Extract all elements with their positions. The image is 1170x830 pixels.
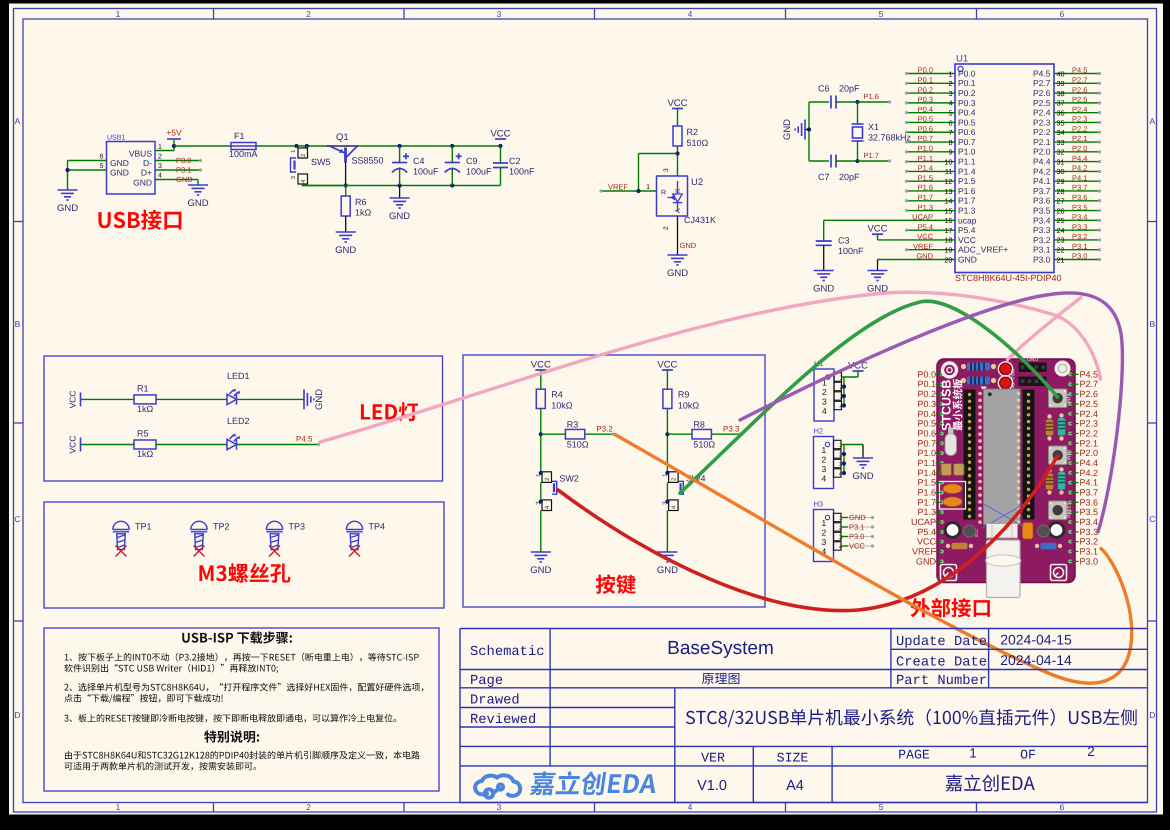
wire <box>908 249 955 251</box>
svg-text:P0.6: P0.6 <box>918 124 933 133</box>
svg-text:TP2: TP2 <box>213 522 230 532</box>
svg-text:P4.4: P4.4 <box>1033 157 1051 167</box>
svg-text:BaseSystem: BaseSystem <box>667 638 774 659</box>
svg-text:USB1: USB1 <box>107 135 125 142</box>
svg-text:VCC: VCC <box>917 537 937 547</box>
wire <box>711 433 738 435</box>
svg-text:GND: GND <box>849 513 866 522</box>
instruction line <box>65 762 257 771</box>
svg-text:X1: X1 <box>868 122 879 132</box>
svg-text:P0.6: P0.6 <box>917 428 936 438</box>
wire <box>155 160 200 162</box>
annotation curve orange (P3.2 to PCB P3.2) <box>615 435 1132 684</box>
power flag VCC <box>662 369 673 371</box>
svg-text:A: A <box>15 116 21 126</box>
svg-text:P3.6: P3.6 <box>1072 193 1087 202</box>
wire <box>908 161 955 163</box>
svg-text:R2: R2 <box>687 127 699 137</box>
svg-text:32: 32 <box>1057 148 1065 157</box>
wire <box>1054 151 1101 153</box>
svg-text:4: 4 <box>688 9 693 19</box>
svg-text:P1.0: P1.0 <box>918 144 933 153</box>
svg-text:SS8550: SS8550 <box>352 156 384 166</box>
wire <box>841 444 863 446</box>
svg-text:32.768kHz: 32.768kHz <box>868 133 912 143</box>
svg-text:P3.1: P3.1 <box>176 166 191 175</box>
junction <box>450 183 454 187</box>
wire <box>1054 82 1101 84</box>
PCB pad bottom left <box>945 523 960 538</box>
svg-text:P0.2: P0.2 <box>917 389 936 399</box>
PCB button INT1 <box>1049 389 1068 408</box>
svg-text:A: A <box>1149 116 1155 126</box>
svg-text:Update Date: Update Date <box>896 635 987 650</box>
svg-text:P1.7: P1.7 <box>918 193 933 202</box>
svg-text:15: 15 <box>944 206 952 215</box>
svg-text:1kΩ: 1kΩ <box>137 404 154 414</box>
svg-text:P5.4: P5.4 <box>958 225 976 235</box>
wire <box>842 395 845 397</box>
svg-text:P0.3: P0.3 <box>958 98 976 108</box>
svg-text:P4.2: P4.2 <box>1072 164 1087 173</box>
LED section box <box>44 356 443 481</box>
svg-text:2: 2 <box>306 802 311 812</box>
svg-text:P3.0: P3.0 <box>849 532 864 541</box>
svg-text:C3: C3 <box>838 236 850 246</box>
svg-text:GND: GND <box>187 198 208 209</box>
svg-text:R: R <box>661 190 666 197</box>
svg-text:P0.4: P0.4 <box>917 409 936 419</box>
svg-text:P3.7: P3.7 <box>1072 183 1087 192</box>
svg-text:P3.5: P3.5 <box>1080 507 1099 517</box>
svg-text:1: 1 <box>948 69 952 78</box>
wire <box>667 433 692 435</box>
label USB接口 <box>98 210 181 230</box>
PCB mount hole TR <box>1055 361 1071 377</box>
junction <box>539 500 543 504</box>
instruction line <box>64 683 423 692</box>
svg-text:Reviewed: Reviewed <box>470 713 536 728</box>
PCB button INT0 <box>1049 446 1068 465</box>
svg-text:14: 14 <box>944 197 952 206</box>
junction <box>450 144 454 148</box>
wire <box>67 161 69 191</box>
svg-text:3: 3 <box>497 9 502 19</box>
svg-text:2024-04-15: 2024-04-15 <box>1000 632 1072 648</box>
svg-text:P0.1: P0.1 <box>917 379 936 389</box>
MCU U1 STC8H8K64U-45I-PDIP40 <box>955 64 1054 273</box>
ground <box>668 255 688 265</box>
svg-text:INT0: INT0 <box>1067 450 1072 460</box>
svg-text:25: 25 <box>1057 216 1065 225</box>
svg-text:GND: GND <box>389 211 410 222</box>
svg-text:P4.5: P4.5 <box>1072 66 1087 75</box>
wire <box>908 73 955 75</box>
svg-text:40: 40 <box>1057 69 1065 78</box>
svg-text:Drawed: Drawed <box>470 694 520 709</box>
svg-text:P3.1: P3.1 <box>1072 242 1087 251</box>
svg-text:P2.0: P2.0 <box>1072 144 1087 153</box>
svg-text:34: 34 <box>1057 128 1065 137</box>
svg-text:P5.4: P5.4 <box>917 527 936 537</box>
PCB resistor (blue) bottom <box>1035 544 1039 548</box>
ground <box>531 552 551 562</box>
svg-text:PAGE: PAGE <box>898 748 930 763</box>
svg-text:4: 4 <box>822 474 827 484</box>
svg-text:R3: R3 <box>567 420 579 430</box>
svg-text:P3.2: P3.2 <box>596 425 613 434</box>
svg-text:Q1: Q1 <box>336 132 349 143</box>
wire <box>541 433 566 435</box>
svg-text:26: 26 <box>1057 206 1065 215</box>
svg-text:B: B <box>15 319 21 329</box>
svg-text:F1: F1 <box>234 131 245 141</box>
wire <box>836 101 858 103</box>
svg-text:38: 38 <box>1057 89 1065 98</box>
svg-text:2: 2 <box>948 79 952 88</box>
svg-text:510Ω: 510Ω <box>567 440 589 450</box>
svg-text:VREF: VREF <box>608 183 628 192</box>
svg-text:P0.4: P0.4 <box>958 108 976 118</box>
wire <box>173 139 175 151</box>
svg-text:GND: GND <box>813 284 834 295</box>
svg-text:P2.2: P2.2 <box>1072 124 1087 133</box>
PCB fuse box <box>940 482 966 510</box>
svg-text:VCC: VCC <box>667 98 687 109</box>
svg-text:2: 2 <box>822 528 827 538</box>
wire <box>809 160 829 162</box>
wire <box>155 179 198 181</box>
junction <box>172 144 176 148</box>
svg-text:22: 22 <box>1057 246 1065 255</box>
wire <box>68 160 107 162</box>
wire <box>1054 121 1101 123</box>
svg-text:VREF: VREF <box>913 242 933 251</box>
svg-text:13: 13 <box>944 187 952 196</box>
annotation curve green (SW4 to INT1 button) <box>680 301 1058 493</box>
wire <box>1054 239 1101 241</box>
power flag VCC <box>872 233 883 235</box>
svg-text:P0.4: P0.4 <box>918 105 933 114</box>
wire <box>1054 141 1101 143</box>
svg-text:SW5: SW5 <box>311 157 331 167</box>
wire <box>1054 180 1101 182</box>
wire <box>68 169 107 171</box>
wire <box>878 259 956 261</box>
svg-text:GND: GND <box>530 565 551 576</box>
wire <box>841 545 848 547</box>
svg-text:VREF: VREF <box>912 547 937 557</box>
wire <box>1054 112 1101 114</box>
svg-text:Create Date: Create Date <box>896 655 987 670</box>
svg-text:P3.0: P3.0 <box>176 156 191 165</box>
svg-text:VCC: VCC <box>68 436 78 454</box>
svg-text:U2: U2 <box>691 177 703 188</box>
svg-text:P2.7: P2.7 <box>1072 75 1087 84</box>
wire <box>808 102 810 161</box>
PCB resistor (teal) <box>1059 413 1063 417</box>
svg-text:5: 5 <box>100 163 104 170</box>
wire <box>841 472 844 474</box>
power flag VCC <box>853 370 864 372</box>
svg-text:LED2: LED2 <box>227 416 250 426</box>
junction <box>539 432 543 436</box>
wire <box>1054 219 1101 221</box>
svg-text:R5: R5 <box>137 429 149 439</box>
PCB silkscreen cross <box>982 503 1026 558</box>
junction <box>855 100 859 104</box>
wire <box>824 219 955 221</box>
svg-text:510Ω: 510Ω <box>693 440 715 450</box>
svg-text:P1.5: P1.5 <box>917 478 936 488</box>
ground <box>336 232 356 242</box>
wire <box>841 517 848 519</box>
wire <box>857 102 859 124</box>
PCB socket +5V <box>1019 377 1047 387</box>
svg-text:P1.6: P1.6 <box>958 186 976 196</box>
instruction line <box>64 694 222 703</box>
test point TP4 (screw) <box>346 521 362 549</box>
svg-text:2024-04-14: 2024-04-14 <box>1000 652 1072 668</box>
svg-text:1kΩ: 1kΩ <box>137 449 154 459</box>
svg-text:P2.7: P2.7 <box>1033 78 1051 88</box>
svg-text:Page: Page <box>470 674 503 689</box>
svg-text:11: 11 <box>945 167 953 176</box>
svg-text:C: C <box>1149 514 1155 524</box>
svg-text:33: 33 <box>1057 138 1065 147</box>
resistor R4 10k <box>540 370 542 389</box>
ground <box>657 552 677 562</box>
PCB crystal cylinder <box>945 434 957 456</box>
svg-text:P3.1: P3.1 <box>1033 245 1051 255</box>
svg-text:R8: R8 <box>693 420 705 430</box>
svg-text:P3.3: P3.3 <box>723 425 740 434</box>
svg-text:P4.4: P4.4 <box>1080 458 1099 468</box>
svg-text:OF: OF <box>1020 748 1036 763</box>
svg-text:P0.3: P0.3 <box>918 95 933 104</box>
svg-text:P0.5: P0.5 <box>958 117 976 127</box>
wire <box>1054 229 1101 231</box>
wire <box>1054 73 1101 75</box>
wire <box>1054 200 1101 202</box>
svg-text:UCAP: UCAP <box>911 517 936 527</box>
svg-text:20pF: 20pF <box>839 84 860 94</box>
svg-text:C2: C2 <box>509 156 521 166</box>
PCB button RESET <box>1049 501 1068 520</box>
wire <box>1054 210 1101 212</box>
wire <box>1054 249 1101 251</box>
svg-text:GND: GND <box>1027 356 1039 362</box>
svg-text:1: 1 <box>646 184 650 191</box>
svg-text:P2.5: P2.5 <box>1080 399 1099 409</box>
svg-text:P1.5: P1.5 <box>958 176 976 186</box>
svg-text:P4.1: P4.1 <box>1080 478 1099 488</box>
PCB DIP chip <box>981 387 988 392</box>
wire <box>1054 161 1101 163</box>
wire <box>858 101 890 103</box>
svg-text:9: 9 <box>948 148 952 157</box>
junction <box>842 403 846 407</box>
svg-text:D+: D+ <box>141 168 152 178</box>
svg-text:2: 2 <box>158 154 162 161</box>
svg-text:100mA: 100mA <box>229 149 258 159</box>
svg-text:ADC_VREF+: ADC_VREF+ <box>958 245 1008 255</box>
junction <box>842 394 846 398</box>
fuse F1 100mA <box>231 143 256 150</box>
PCB resistor (tan) bottom <box>946 544 950 548</box>
svg-text:P2.6: P2.6 <box>1072 85 1087 94</box>
svg-text:Schematic: Schematic <box>470 645 545 660</box>
JLC EDA logo <box>475 775 520 797</box>
svg-text:P3.4: P3.4 <box>1033 215 1051 225</box>
wire <box>842 376 859 378</box>
wire <box>841 463 844 465</box>
svg-text:P2.1: P2.1 <box>1033 137 1051 147</box>
resistor R2 510 <box>677 109 679 127</box>
PCB socket GND <box>1019 363 1047 373</box>
power flag VCC <box>535 369 546 371</box>
wire <box>1054 102 1101 104</box>
svg-text:P2.0: P2.0 <box>1033 147 1051 157</box>
wire <box>908 210 955 212</box>
svg-text:GND: GND <box>657 565 678 576</box>
wire <box>908 92 955 94</box>
svg-text:CJ431K: CJ431K <box>684 215 716 225</box>
svg-text:P4.4: P4.4 <box>1072 154 1087 163</box>
svg-text:3: 3 <box>497 802 502 812</box>
svg-text:STC8H8K64U-45I-PDIP40: STC8H8K64U-45I-PDIP40 <box>955 273 1062 283</box>
wire SW5 to base <box>301 184 303 186</box>
PCB resistor (tan) <box>1047 414 1051 418</box>
svg-text:3: 3 <box>158 163 162 170</box>
svg-text:GND: GND <box>110 158 129 168</box>
svg-text:VCC: VCC <box>917 232 933 241</box>
instruction title <box>182 632 292 644</box>
junction <box>842 384 846 388</box>
svg-text:P0.0: P0.0 <box>917 369 936 379</box>
wire <box>156 444 227 446</box>
annotation curve pink (P4.5 LED2 to PCB P4.5) <box>320 292 1101 442</box>
svg-text:4: 4 <box>158 173 162 180</box>
test point TP2 (screw) <box>191 521 207 549</box>
svg-text:VCC: VCC <box>958 235 976 245</box>
svg-text:P4.2: P4.2 <box>1033 166 1051 176</box>
svg-text:D: D <box>1149 710 1155 720</box>
svg-text:20pF: 20pF <box>839 172 860 182</box>
svg-text:VCC: VCC <box>531 360 551 371</box>
wire <box>666 511 668 553</box>
wire <box>540 511 542 553</box>
svg-text:35: 35 <box>1057 118 1065 127</box>
PCB LED PWR <box>998 362 1012 376</box>
svg-text:P3.1: P3.1 <box>1080 547 1099 557</box>
svg-text:P3.5: P3.5 <box>1033 205 1051 215</box>
svg-text:4: 4 <box>948 99 952 108</box>
PCB resistor (tan) <box>1047 468 1051 472</box>
ground <box>814 271 834 281</box>
svg-text:P0.3: P0.3 <box>917 399 936 409</box>
wire <box>908 112 955 114</box>
connector USB1 <box>107 142 156 195</box>
PCB inductor (white) <box>987 524 1018 539</box>
test point TP1 (screw) <box>113 521 129 549</box>
svg-text:A4: A4 <box>786 778 804 794</box>
ground <box>853 458 873 468</box>
wire <box>908 102 955 104</box>
svg-text:2: 2 <box>1087 744 1095 759</box>
svg-text:VER: VER <box>701 751 725 766</box>
svg-text:5: 5 <box>879 802 884 812</box>
PCB board (STCUSB minimal system board) <box>937 356 1075 598</box>
junction <box>398 144 402 148</box>
svg-text:6: 6 <box>948 118 952 127</box>
svg-text:A: A <box>675 208 682 213</box>
svg-text:P1.3: P1.3 <box>958 205 976 215</box>
title block <box>460 629 1148 803</box>
svg-text:VCC: VCC <box>490 129 510 140</box>
ground <box>390 198 410 208</box>
wire main rail <box>174 145 231 147</box>
PCB resistor (blue) 2 <box>961 378 966 383</box>
svg-text:GND: GND <box>335 245 356 256</box>
ground <box>58 190 78 200</box>
junction <box>665 432 669 436</box>
push button section box <box>463 355 765 607</box>
svg-text:100nF: 100nF <box>838 246 864 256</box>
junction <box>675 151 679 155</box>
svg-text:P2.2: P2.2 <box>1033 127 1051 137</box>
svg-text:R6: R6 <box>355 197 367 207</box>
wire <box>585 433 612 435</box>
wire <box>540 409 542 473</box>
svg-text:P1.0: P1.0 <box>958 147 976 157</box>
instruction subtitle <box>204 731 259 743</box>
svg-text:P2.7: P2.7 <box>1080 379 1099 389</box>
node GND under U2 <box>677 216 679 255</box>
svg-text:C6: C6 <box>818 84 830 94</box>
svg-text:6: 6 <box>100 154 104 161</box>
wire <box>1054 131 1101 133</box>
svg-text:19: 19 <box>944 246 952 255</box>
svg-text:D: D <box>14 710 20 720</box>
svg-text:H3: H3 <box>814 500 824 509</box>
test point TP3 (screw) <box>266 521 282 549</box>
svg-text:SIZE: SIZE <box>777 751 809 766</box>
wire <box>1054 259 1101 261</box>
svg-text:10kΩ: 10kΩ <box>551 401 573 411</box>
svg-text:ucap: ucap <box>958 215 977 225</box>
svg-text:3: 3 <box>822 464 827 474</box>
svg-text:P2.6: P2.6 <box>1080 389 1099 399</box>
junction <box>842 452 846 456</box>
wire <box>1054 170 1101 172</box>
svg-text:P3.2: P3.2 <box>1080 537 1099 547</box>
svg-text:TP1: TP1 <box>135 522 152 532</box>
svg-text:GND: GND <box>958 254 977 264</box>
svg-text:7: 7 <box>948 128 952 137</box>
svg-text:29: 29 <box>1057 177 1065 186</box>
instruction line <box>65 653 419 662</box>
svg-text:P1.3: P1.3 <box>917 507 936 517</box>
svg-text:P1.4: P1.4 <box>917 468 936 478</box>
svg-text:36: 36 <box>1057 108 1065 117</box>
PCB resistor (blue) 1 <box>961 364 966 369</box>
svg-text:P3.2: P3.2 <box>1072 232 1087 241</box>
svg-text:RESET: RESET <box>1067 502 1072 518</box>
svg-text:39: 39 <box>1057 79 1065 88</box>
svg-text:P1.4: P1.4 <box>918 164 933 173</box>
svg-text:10: 10 <box>944 157 952 166</box>
